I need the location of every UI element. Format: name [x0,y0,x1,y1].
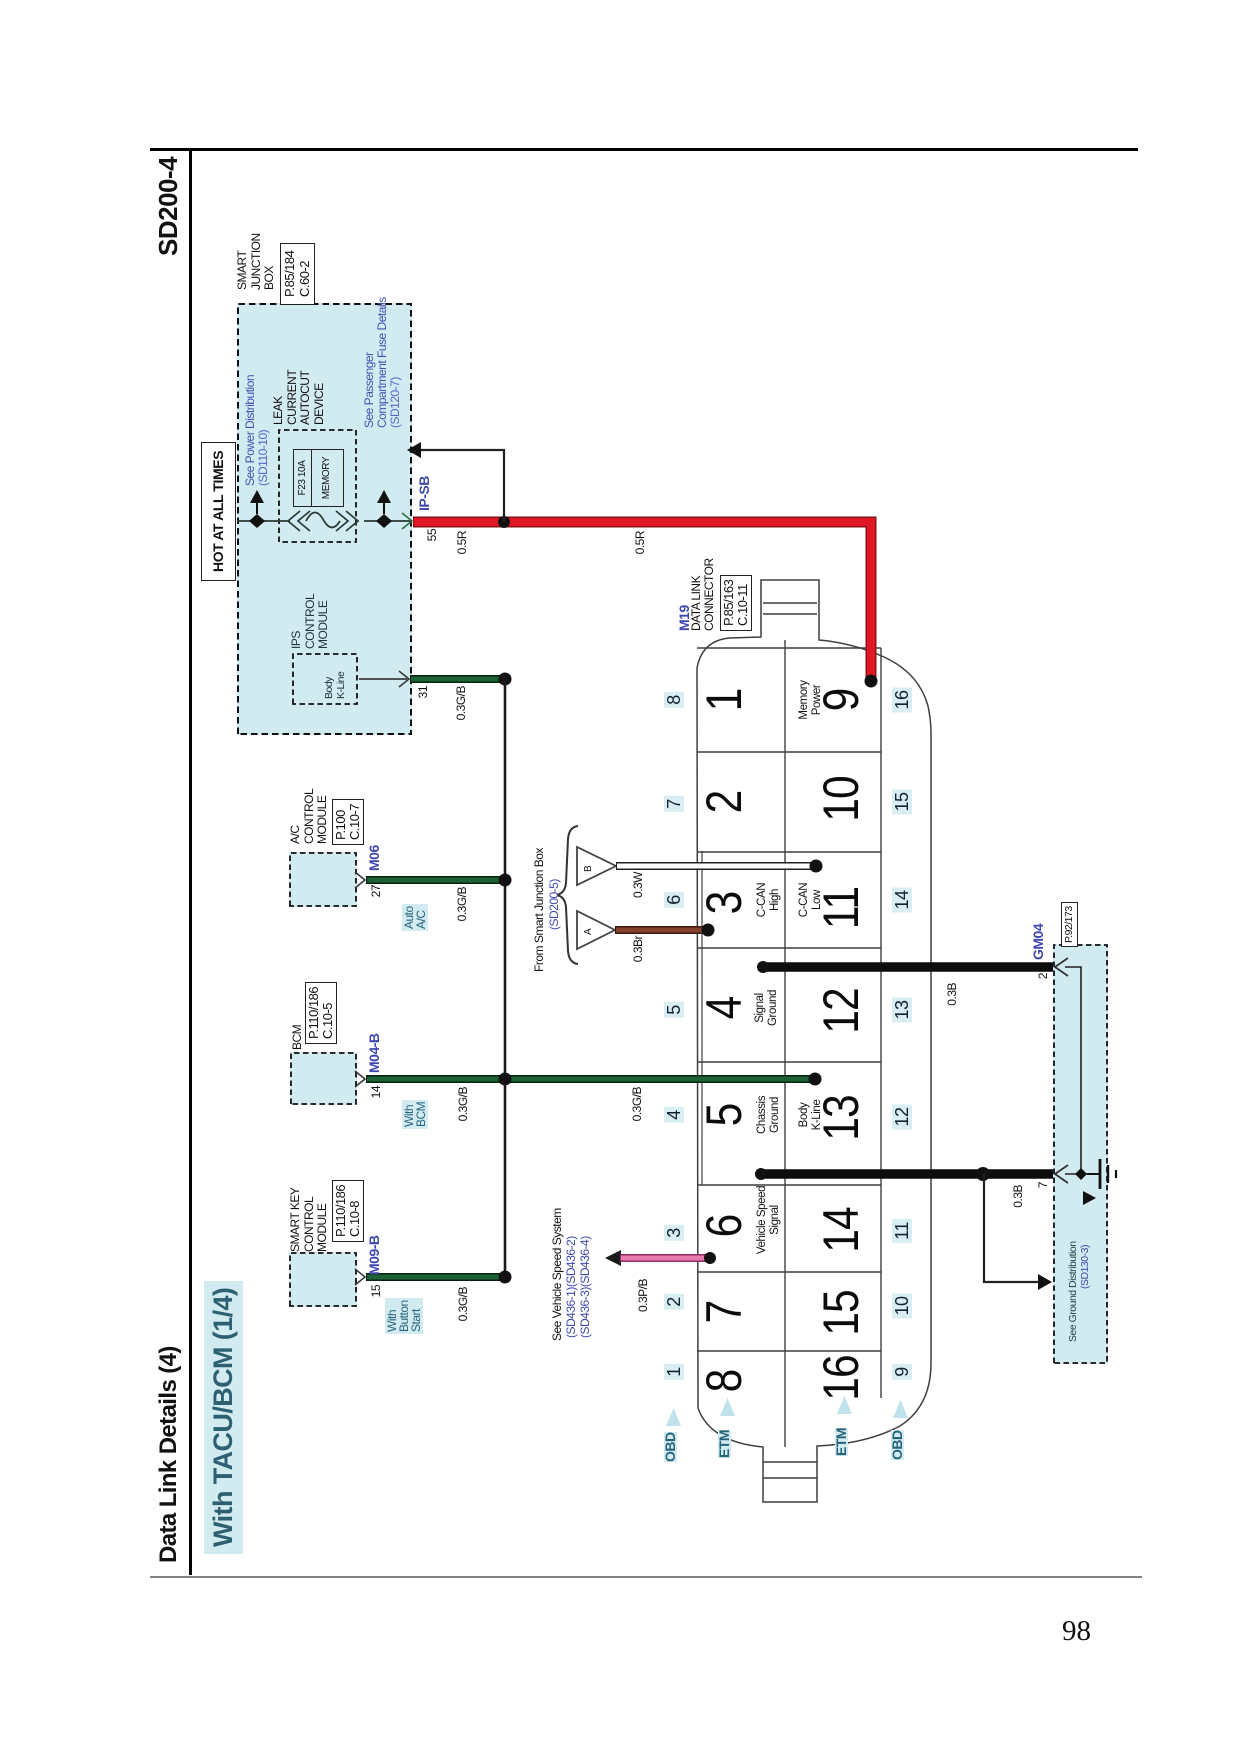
brace from smart junction box [557,826,578,964]
connector grid right edge [697,647,881,649]
pin 55 [426,529,439,541]
node body K-line pin 13 [809,1073,822,1086]
GM04 dashed border [1054,945,1107,1363]
ref See Power Distribution [244,375,270,486]
terminal A/C pin 27 [355,872,365,888]
ground GM04 dashed box [1053,944,1108,1364]
wire label 0.3B chassis ground [1012,1185,1025,1208]
node signal ground pin 4 [757,961,769,973]
A/C module dashed border [290,853,356,906]
wire C-CAN high 0.3Br brown [615,926,705,934]
label A/C control module [289,789,330,844]
module A/C control module box M06 [289,852,357,907]
small cavity numbers bottom row [892,1364,912,1380]
leak current autocut device sub-box [279,430,356,542]
frame right edge [150,148,1138,151]
wire BCM K-line 0.3G/B green [366,1075,813,1083]
pin 2 [1037,973,1050,979]
pin label C-CAN low [798,883,823,917]
BCM module dashed border [291,1053,356,1104]
wire branch to passenger fuse details [419,450,504,522]
wire label 0.3G/B Smart Key [457,1287,470,1321]
wire label 0.3G/B BCM upper [457,1087,470,1121]
arrow to See Passenger Compartment Fuse Details [383,502,385,514]
net IP-SB [418,476,431,511]
SJB dashed border [238,304,411,734]
pin 14 [370,1086,383,1098]
connector name GM04 [1032,924,1045,960]
junction diamond 2 [376,514,392,528]
pin label vehicle speed signal [756,1186,781,1254]
wire label 0.3B signal ground [946,983,959,1006]
tag With Button Start [385,1298,423,1334]
header rule [189,148,192,1575]
ground symbol GM04 [1087,1173,1100,1175]
label data link connector [690,558,715,631]
label triangle A [582,929,595,935]
wire label 0.3G/B IPS [455,686,468,720]
IPS body K-line sub-box [293,654,357,704]
wire Smart Key K-line 0.3G/B green [366,1273,502,1281]
wire K-line bus [504,679,507,1277]
wire label 0.3W [632,872,645,898]
pin 15 [370,1285,383,1297]
row tag OBD top [664,1432,677,1462]
junction diamond 1 [249,514,265,528]
row tag ETM bottom [835,1428,848,1456]
OBD ETM row marker arrows [666,1408,681,1426]
connector triangle B [577,847,616,885]
node BCM K-line to bus [499,1073,512,1086]
title [162,1346,175,1563]
Smart Key module dashed border [290,1253,356,1306]
node A/C K-line to bus [499,874,512,887]
ref box P.110/186 C.10-8 [332,1180,364,1242]
wire A/C K-line 0.3G/B green [366,876,502,884]
pin label C-CAN high [756,883,781,917]
subtitle With TACU/BCM [204,1281,243,1554]
frame left edge [150,1576,1142,1578]
arrow to See Power Distribution [256,502,258,514]
terminal GM04 pin 2 [1055,958,1068,976]
pin 31 [417,686,430,698]
wire label 0.3P/B [637,1279,650,1312]
big pin numbers bottom row [816,1355,866,1401]
SJB internal feed wire [237,520,412,522]
label body K-line [323,672,347,699]
fuse F23 10A symbol [288,511,310,531]
connector name M19 [678,605,691,631]
wire label 0.3Br [632,936,645,962]
connector grid inner top line [701,851,703,1185]
connector grid bottom line [880,648,882,1398]
pin label memory power [798,680,823,719]
ref From Smart Junction Box [533,848,546,972]
connector grid middle line [784,640,786,1447]
terminal IPS pin 31 [399,671,409,687]
tag With BCM [402,1100,428,1129]
terminal at SJB pin 55 [402,513,412,529]
connector M19 housing outline [697,580,931,1502]
ref See Passenger Compartment Fuse Details [363,297,402,428]
tag Auto A/C [402,904,428,931]
node vehicle speed signal pin 6 [704,1252,716,1264]
connector name M09-B [368,1235,381,1275]
ref See Vehicle Speed System [551,1208,564,1341]
connector name M06 [368,845,381,871]
ref box P.85/163 C.10-11 [720,575,752,631]
label triangle B [582,866,595,872]
node chassis ground pin 5 [755,1168,767,1180]
connector grid column dividers [697,752,881,1351]
arrow see vehicle speed system [605,1250,621,1266]
pin label body K-line [798,1100,823,1131]
label Smart Key control module [289,1188,330,1252]
wire vehicle speed signal 0.3P/B pink [620,1254,706,1262]
module BCM box M04-B [290,1052,357,1105]
label Smart Junction Box [236,233,277,290]
label HOT AT ALL TIMES [201,442,236,581]
wire label 0.3G/B A/C [456,887,469,921]
GM04 internal wires [1065,967,1087,1174]
wire label 0.5R upper [456,531,469,554]
wire IPS K-line 0.3G/B green [410,675,502,683]
junction diamond GM04 [1075,1168,1087,1180]
node C-CAN high pin 3 [702,924,715,937]
pin 7 [1037,1182,1050,1188]
fuse label box F23 10A MEMORY [293,449,344,507]
terminal GM04 pin 7 [1055,1165,1068,1183]
terminal BCM pin 14 [355,1071,365,1087]
IPS K-line internal wire [359,678,407,680]
wire battery feed 0.5R red [413,522,871,681]
label leak current autocut device [272,370,326,425]
module Smart Key control module box M09-B [289,1252,357,1307]
connector triangle A [577,911,615,949]
big pin numbers top row [699,1370,749,1393]
node Smart Key K-line to bus [499,1271,512,1284]
label BCM [291,1025,304,1050]
row tag OBD bottom [891,1430,904,1460]
Smart Junction Box (SJB) dashed module box [237,303,412,735]
connector name M04-B [368,1033,381,1073]
sheet code SD200-4 [162,157,175,256]
pin 27 [370,885,383,897]
wire label 0.3G/B BCM lower [631,1087,644,1121]
ref See Ground Distribution [1067,1241,1080,1342]
connector left tab lines [763,1462,817,1478]
pin label chassis ground [756,1096,781,1134]
arrow see ground distribution [1083,1191,1096,1205]
wire label 0.5R lower [634,531,647,554]
ref box P.92/173 [1061,902,1078,947]
page number [1062,1615,1091,1648]
ref box P.110/186 C.10-5 [305,982,337,1044]
ref box P.100 C.10-7 [332,799,364,845]
small cavity numbers top row [664,1364,684,1380]
node C-CAN low pin 11 [810,860,823,873]
row tag ETM top [718,1430,731,1458]
wire ground branch [984,1174,1041,1282]
node IPS K-line to bus [499,673,512,686]
terminal Smart Key pin 15 [355,1269,365,1285]
ref box P.85/184 [280,243,315,305]
node memory power pin 9 [865,675,878,688]
pin label signal ground [754,990,779,1026]
wire chassis ground 0.3B black [761,1169,1053,1179]
label IPS control module [290,594,331,649]
wire signal ground 0.3B black [763,962,1053,972]
wire C-CAN low 0.3W white [616,862,814,870]
node red wire junction [498,516,510,528]
node chassis ground branch junction [976,1167,990,1181]
connector right tab lines [763,603,817,614]
